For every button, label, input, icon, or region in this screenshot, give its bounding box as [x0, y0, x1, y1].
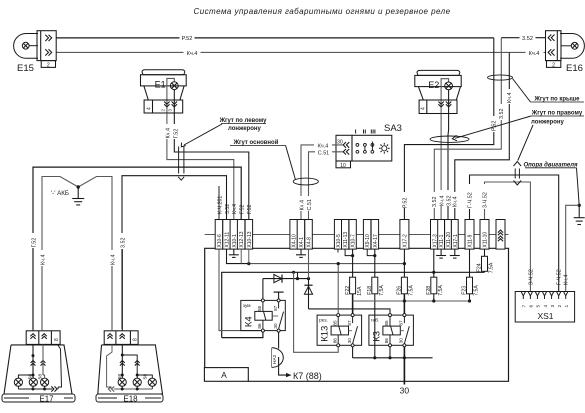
wire L-bend X11-13 — [345, 249, 353, 256]
wire 3.52 drop — [434, 38, 501, 220]
harness crossing (roof, at E2 wires) — [430, 136, 469, 142]
wire P.52 drop — [404, 38, 493, 220]
svg-text:Г-Ч.52: Г-Ч.52 — [467, 192, 473, 208]
svg-text:4: 4 — [421, 107, 427, 110]
svg-text:Кч.4: Кч.4 — [187, 51, 198, 57]
svg-text:2: 2 — [552, 63, 555, 69]
svg-text:85: 85 — [332, 320, 337, 326]
svg-text:К13: К13 — [320, 326, 331, 342]
wire E18 internal — [121, 344, 123, 378]
svg-text:Х4-1: Х4-1 — [299, 237, 305, 248]
svg-text:3.52: 3.52 — [225, 204, 231, 214]
svg-text:рез.: рез. — [319, 319, 328, 324]
svg-text:НА2: НА2 — [272, 354, 278, 364]
svg-text:SA3: SA3 — [384, 123, 402, 134]
pin Х10-1 — [230, 220, 238, 250]
pin Х10-6 — [215, 220, 223, 250]
svg-text:Х10-13: Х10-13 — [247, 231, 253, 247]
svg-text:'-' АКБ: '-' АКБ — [51, 190, 69, 197]
svg-text:Х17-2: Х17-2 — [402, 234, 408, 248]
lamp E16 — [560, 34, 584, 59]
pin Х11-13 — [342, 220, 349, 250]
svg-text:Система управления габаритными: Система управления габаритными огнями и … — [193, 7, 450, 16]
wire Кч.4 from E2 — [440, 114, 442, 220]
wire L-bend X9-10 — [367, 249, 375, 256]
wire Кч.4 lamp jog — [167, 78, 174, 113]
svg-text:E15: E15 — [17, 63, 34, 74]
harness crossing (left member) — [178, 147, 180, 174]
svg-text:Г.52: Г.52 — [31, 238, 37, 248]
svg-text:30: 30 — [400, 386, 410, 396]
wire 3.52 bus — [122, 176, 227, 329]
svg-text:87: 87 — [399, 320, 404, 326]
svg-text:87: 87 — [347, 320, 352, 326]
svg-text:86: 86 — [332, 338, 337, 344]
lamp E1 — [142, 70, 185, 75]
svg-text:F23: F23 — [462, 286, 468, 295]
wire bus D (30 rail) — [353, 300, 470, 302]
wire Кч.4 to E17 — [41, 329, 43, 331]
svg-text:P.52: P.52 — [402, 198, 408, 208]
svg-text:30: 30 — [347, 338, 352, 344]
relay К13 — [317, 315, 362, 345]
wire K4-85 up to diode row — [262, 279, 264, 299]
svg-text:F22: F22 — [345, 286, 351, 295]
svg-text:30: 30 — [273, 323, 278, 329]
svg-text:85: 85 — [384, 320, 389, 326]
wire K13-30 down — [352, 347, 354, 358]
fuse F18 — [374, 249, 376, 277]
svg-text:3.52: 3.52 — [120, 238, 126, 249]
wire L-bend X10-5 stub — [337, 249, 339, 252]
svg-text:85: 85 — [257, 305, 262, 311]
fuse F26 — [403, 249, 405, 277]
svg-text:Х17-1: Х17-1 — [453, 234, 459, 248]
svg-text:Кч.4: Кч.4 — [165, 128, 171, 138]
svg-text:F18: F18 — [367, 286, 373, 295]
svg-text:Г.52: Г.52 — [173, 129, 179, 139]
svg-text:Е2: Е2 — [428, 80, 439, 90]
svg-text:7,5А: 7,5А — [438, 285, 444, 296]
wire Г.52 bus — [33, 167, 241, 329]
svg-text:7: 7 — [522, 305, 528, 308]
svg-text:Е1: Е1 — [155, 80, 166, 90]
svg-text:F28: F28 — [426, 286, 432, 295]
pin Х9-10 — [363, 220, 371, 250]
block main box — [205, 248, 509, 381]
ground under Х11-1 — [440, 249, 442, 255]
svg-text:F24: F24 — [477, 263, 483, 272]
pin connector (spare) — [496, 220, 505, 250]
connector XS1 — [515, 292, 574, 323]
ground under Х4-1 — [300, 249, 302, 255]
buzzer HA2 — [271, 348, 273, 368]
wire Кч.4 to SA3 — [301, 145, 343, 220]
wire through HA2 — [278, 357, 280, 367]
pin Х12-11 — [223, 220, 231, 250]
wire К-Ч.201 stub — [218, 186, 220, 220]
pin Х11-20 — [445, 220, 452, 250]
svg-text:3.52: 3.52 — [522, 36, 533, 42]
wire Кч.4 ground strap — [566, 205, 580, 291]
svg-text:2: 2 — [47, 63, 50, 69]
svg-text:7,5А: 7,5А — [409, 285, 415, 296]
harness crossing (at E16 drop wires) — [488, 75, 513, 80]
svg-text:Х4-8: Х4-8 — [307, 237, 313, 248]
svg-text:10: 10 — [340, 163, 346, 169]
svg-text:F26: F26 — [397, 286, 403, 295]
ground under Х17-1 — [454, 249, 456, 255]
pin Х17-1 — [451, 220, 458, 250]
svg-text:К7 (88): К7 (88) — [293, 371, 322, 381]
svg-text:E16: E16 — [566, 63, 583, 74]
svg-text:87: 87 — [273, 305, 278, 311]
wire K4-87 T-bar — [278, 292, 280, 299]
svg-text:Кч.4: Кч.4 — [529, 51, 540, 57]
wire Кч.4 from E1 — [167, 113, 234, 220]
wire С.51 X4-8 drop to diode row — [308, 249, 310, 279]
pin Х4-17 — [371, 220, 379, 250]
svg-text:Кч.4: Кч.4 — [40, 255, 46, 265]
wire 3.52 from E2 — [447, 114, 450, 220]
wire 3.52 to E16 — [501, 37, 545, 39]
relay К3 — [369, 315, 414, 345]
svg-text:P.52: P.52 — [182, 36, 193, 42]
pin Х12-13 — [237, 220, 245, 250]
svg-text:Жгут основной: Жгут основной — [233, 139, 279, 146]
pin Х4-1 — [297, 220, 305, 250]
wire bus A (X12-11 feed) — [227, 249, 249, 264]
fuse F24 — [484, 249, 486, 256]
svg-text:7,5А: 7,5А — [489, 262, 495, 273]
svg-text:4: 4 — [146, 107, 152, 110]
pin Х10-13 — [245, 220, 253, 250]
svg-text:7,5А: 7,5А — [474, 285, 480, 296]
svg-text:4: 4 — [543, 305, 549, 308]
diode VD1 — [263, 278, 309, 280]
harness crossing (right member) — [514, 162, 522, 167]
wire bus E — [353, 357, 433, 359]
svg-text:Х11-10: Х11-10 — [483, 232, 489, 248]
wire Г.52 to E17 (already bus) — [32, 329, 34, 331]
wire Г.52 lamp drop — [173, 90, 175, 114]
svg-text:3: 3 — [550, 305, 556, 308]
svg-text:8: 8 — [54, 338, 60, 341]
svg-text:86: 86 — [384, 338, 389, 344]
svg-text:3.52: 3.52 — [499, 109, 505, 120]
svg-text:Кч.4: Кч.4 — [110, 255, 116, 265]
pin Х10-7 — [349, 220, 356, 250]
pin Х11-9 — [465, 220, 474, 250]
harness crossing (SA3 drops) — [293, 178, 318, 185]
svg-text:1: 1 — [564, 305, 570, 308]
svg-text:Кч.4: Кч.4 — [453, 197, 459, 207]
svg-text:3.52: 3.52 — [432, 197, 438, 208]
svg-text:6: 6 — [529, 305, 535, 308]
fuse F22 — [352, 249, 354, 277]
svg-text:лонжерону: лонжерону — [228, 126, 261, 132]
wire X10-13 stub — [248, 249, 250, 264]
svg-text:Х11-13: Х11-13 — [343, 232, 349, 248]
svg-text:С.51: С.51 — [307, 199, 313, 210]
wire С.51 to SA3 — [309, 152, 344, 220]
svg-text:габ.: габ. — [371, 318, 379, 324]
block A — [204, 368, 248, 382]
svg-text:XS1: XS1 — [537, 311, 553, 321]
wire F26 to K3-87 — [403, 294, 405, 315]
pin Х4-8 — [305, 220, 313, 250]
pin Х17-2 — [400, 220, 409, 250]
lamp E2 — [417, 70, 460, 75]
svg-text:Х4-17: Х4-17 — [373, 234, 379, 248]
wire K13-85 up to bus A — [337, 264, 339, 314]
fuse F23 — [469, 249, 471, 277]
svg-text:С.51: С.51 — [318, 150, 329, 156]
wire Г-Ч.52 — [470, 175, 559, 292]
svg-text:58: 58 — [143, 374, 149, 380]
node engine ground junction — [578, 204, 581, 207]
svg-text:Е18: Е18 — [123, 395, 138, 404]
wire Кч.4 top bus — [56, 51, 545, 53]
wire X12-13 stub — [240, 249, 242, 264]
wire 30 output — [403, 347, 405, 385]
ground under Х10-1 — [233, 249, 235, 255]
svg-text:Кч.4: Кч.4 — [564, 275, 570, 285]
wire K13-86 loop — [294, 272, 339, 352]
wire X10-6 to K4-86 — [219, 249, 263, 331]
relay К4 — [241, 300, 285, 330]
svg-text:Х9-10: Х9-10 — [365, 234, 371, 248]
wire VD2 to K3-85 — [309, 309, 391, 315]
wire P.52 top bus — [56, 37, 494, 39]
wire K3-86 down — [389, 347, 391, 358]
svg-text:3-Ч.52: 3-Ч.52 — [528, 269, 534, 285]
svg-text:Х10-7: Х10-7 — [351, 234, 357, 248]
wire K4-30 to HA2 — [278, 332, 280, 348]
pin Х11-10 — [480, 220, 489, 250]
wire connector strip — [205, 234, 509, 236]
diode VD2 — [308, 279, 310, 309]
svg-text:58: 58 — [117, 374, 123, 380]
wire 3-Ч.52 — [485, 182, 531, 292]
svg-text:Х10-6: Х10-6 — [217, 234, 223, 248]
wire 3.52 to E18 — [121, 266, 123, 331]
pin Х10-5 — [334, 220, 341, 250]
svg-text:Кч.4: Кч.4 — [232, 204, 238, 214]
svg-text:58: 58 — [28, 374, 34, 380]
ground (battery) — [72, 198, 84, 200]
svg-text:7,5А: 7,5А — [379, 285, 385, 296]
svg-text:Х12-13: Х12-13 — [239, 231, 245, 247]
svg-text:Х11-9: Х11-9 — [468, 234, 474, 247]
svg-text:Кч.4: Кч.4 — [507, 93, 513, 103]
svg-text:К-Ч.201: К-Ч.201 — [217, 196, 223, 214]
wire Кч.4 lamp jog — [441, 79, 449, 114]
svg-text:30: 30 — [399, 338, 404, 344]
battery АКБ minus — [42, 177, 112, 330]
wire Кч.4 drop from E16 — [455, 52, 510, 219]
wire E17 internal — [32, 344, 34, 378]
svg-text:зум: зум — [243, 304, 251, 309]
svg-text:К4: К4 — [243, 316, 254, 327]
wire bus B — [222, 272, 485, 337]
svg-text:Е17: Е17 — [39, 395, 54, 404]
lamp cluster E17 — [26, 331, 60, 345]
pin Х11-1 — [438, 220, 445, 250]
svg-text:А: А — [221, 370, 227, 380]
svg-text:Г.52: Г.52 — [247, 204, 253, 214]
wire Г.52 from E1 — [174, 113, 249, 220]
svg-text:К3: К3 — [371, 331, 382, 342]
svg-text:Г.52: Г.52 — [240, 204, 246, 214]
lamp cluster E18 — [104, 331, 138, 345]
fuse F28 — [433, 249, 435, 277]
wire HA2 to K7 — [279, 367, 286, 375]
wire F22 to K13-87 — [352, 294, 354, 315]
wire Кч.4 to E18 — [111, 266, 113, 331]
svg-text:Г-Ч.52: Г-Ч.52 — [557, 269, 563, 285]
svg-text:лонжерону: лонжерону — [531, 120, 564, 126]
pin Х17-3 — [431, 220, 439, 250]
svg-text:5: 5 — [536, 305, 542, 308]
lamp E15 — [14, 34, 38, 59]
svg-text:15А: 15А — [357, 286, 363, 296]
wire 3.52 lamp drop — [448, 90, 450, 114]
svg-text:3-Ч.52: 3-Ч.52 — [482, 192, 488, 208]
svg-text:2: 2 — [557, 305, 563, 308]
wire tap busB to diode row — [297, 272, 299, 278]
ground (engine) — [574, 217, 585, 219]
svg-text:8: 8 — [132, 338, 138, 341]
pin Х4-10 — [290, 220, 298, 250]
svg-text:Кч.4: Кч.4 — [299, 200, 305, 210]
svg-text:86: 86 — [257, 323, 262, 329]
